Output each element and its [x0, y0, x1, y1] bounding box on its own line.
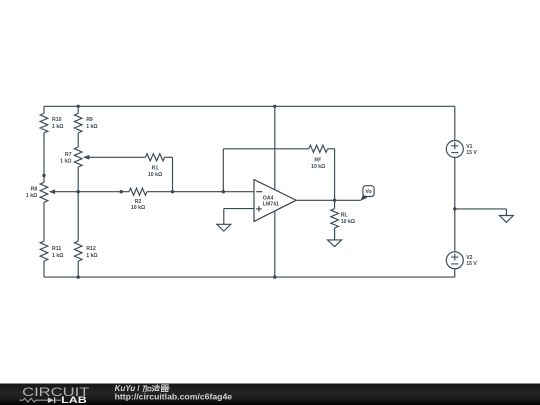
source V2: [446, 252, 477, 269]
svg-text:1 kΩ: 1 kΩ: [86, 253, 97, 259]
node ground tap: [453, 207, 456, 210]
svg-text:LAB: LAB: [61, 395, 87, 405]
resistor R11: [40, 241, 63, 261]
svg-text:10 kΩ: 10 kΩ: [341, 219, 355, 225]
resistor R1: [145, 154, 164, 178]
svg-text:1 kΩ: 1 kΩ: [52, 253, 63, 259]
svg-text:10 kΩ: 10 kΩ: [148, 172, 162, 178]
logo LAB: [61, 395, 87, 405]
ground right: [499, 216, 513, 223]
wire RL top: [334, 200, 336, 208]
footer bar: [0, 384, 540, 405]
footer url: [115, 392, 233, 401]
wire feedback down: [334, 149, 336, 201]
wire col2 R9-R7: [77, 133, 79, 147]
wire op-amp output: [296, 199, 360, 201]
wire left column R8-R11: [43, 202, 45, 241]
wire left column lower: [43, 261, 45, 277]
svg-text:10 kΩ: 10 kΩ: [131, 205, 145, 211]
wire V1 top: [454, 106, 456, 140]
svg-text:1 kΩ: 1 kΩ: [60, 159, 71, 165]
wire to right ground: [455, 209, 507, 216]
node R2 left: [120, 190, 123, 193]
resistor R2: [129, 188, 147, 211]
node left column joint: [42, 174, 45, 177]
wire op-amp + input: [224, 209, 254, 225]
svg-text:LM741: LM741: [263, 202, 279, 208]
svg-text:10 kΩ: 10 kΩ: [311, 164, 325, 170]
wire RL bottom: [334, 228, 336, 240]
svg-text:R12: R12: [86, 246, 96, 252]
resistor R9: [74, 113, 97, 132]
svg-text:R11: R11: [52, 246, 61, 252]
wire op-amp power rail: [274, 106, 276, 277]
potentiometer R8: [26, 182, 55, 202]
svg-text:R8: R8: [31, 186, 38, 192]
source V1: [446, 141, 477, 158]
node col2 top: [77, 105, 80, 108]
wire V2 bottom: [454, 269, 456, 277]
resistor RL: [331, 209, 355, 228]
wire V1-V2: [454, 158, 456, 252]
svg-text:http://circuitlab.com/c6fag4e: http://circuitlab.com/c6fag4e: [115, 392, 233, 401]
wire left column upper: [43, 106, 45, 113]
node col2 mid: [77, 190, 80, 193]
wire col2 upper: [77, 106, 79, 113]
op-amp U1 OA4 LM741: [254, 180, 296, 222]
svg-text:RL: RL: [341, 213, 349, 219]
wire R8 wiper to R2: [53, 191, 129, 193]
wire feedback riser: [222, 149, 224, 192]
wire R1 down: [172, 157, 174, 191]
svg-text:R7: R7: [65, 152, 72, 158]
node power top: [273, 105, 276, 108]
logo CIRCUIT: [22, 385, 90, 399]
svg-text:R10: R10: [52, 117, 62, 123]
wire col2 lower: [77, 261, 79, 277]
logo waveform and diode: [19, 397, 61, 403]
wire feedback top: [223, 148, 308, 150]
svg-text:Vo: Vo: [365, 189, 371, 195]
resistor R10: [40, 113, 63, 132]
svg-text:1 kΩ: 1 kΩ: [86, 124, 97, 130]
node power bottom: [273, 275, 276, 278]
svg-text:RF: RF: [314, 158, 321, 164]
footer title CJK 加法器: [143, 385, 169, 392]
wire left column R10-R8: [43, 133, 45, 182]
resistor RF: [309, 145, 328, 170]
wire R2 to op-amp: [147, 191, 254, 193]
svg-text:15 V: 15 V: [466, 150, 477, 156]
svg-text:R2: R2: [135, 199, 142, 205]
svg-text:1 kΩ: 1 kΩ: [52, 124, 63, 130]
wire top rail: [44, 105, 455, 107]
node R1 junction: [171, 190, 174, 193]
svg-text:R1: R1: [152, 166, 159, 172]
wire RF right: [328, 148, 335, 150]
ground RL: [328, 240, 342, 247]
wire bottom rail: [44, 276, 455, 278]
ground op-amp +: [217, 224, 231, 231]
resistor R12: [74, 241, 97, 261]
svg-text:R9: R9: [86, 117, 93, 123]
wire R1 right: [165, 156, 173, 158]
svg-text:1 kΩ: 1 kΩ: [26, 193, 37, 199]
node feedback junction: [222, 190, 225, 193]
node output junction: [333, 199, 336, 202]
svg-text:15 V: 15 V: [466, 261, 477, 267]
flag Vo: [360, 186, 374, 201]
potentiometer R7: [60, 147, 89, 167]
footer title KuYu /: [115, 384, 141, 393]
wire col2 R7-R12: [77, 167, 79, 241]
node col2 bottom: [77, 275, 80, 278]
wire R7 wiper to R1: [87, 156, 145, 158]
